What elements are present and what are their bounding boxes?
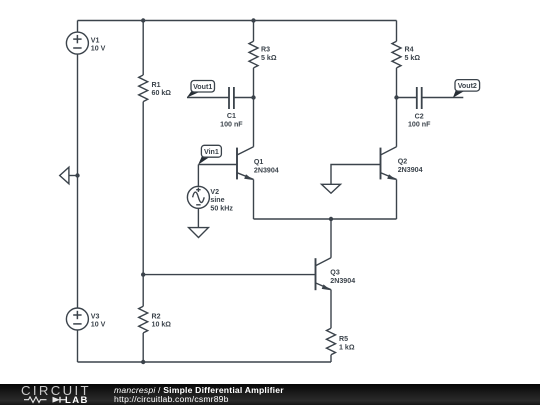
wire R5 bottom lead [330, 355, 332, 362]
svg-text:60 kΩ: 60 kΩ [152, 89, 172, 97]
wire Q2 base to ground [331, 165, 381, 185]
junction top rail R1 [141, 18, 145, 22]
ground at Q2 base [322, 184, 341, 193]
svg-text:100 nF: 100 nF [408, 121, 431, 129]
svg-text:R5: R5 [339, 335, 348, 343]
wire R4 bottom lead [396, 68, 398, 98]
svg-text:5 kΩ: 5 kΩ [405, 54, 421, 62]
svg-text:R2: R2 [152, 312, 161, 320]
wire R2 top lead [142, 275, 144, 307]
footer bar [0, 384, 540, 405]
wire Q2 collector lead [396, 98, 398, 147]
wire V1 top lead [77, 21, 79, 33]
footer caption [114, 386, 534, 406]
wire Q3 base [143, 274, 315, 276]
resistor R4 [392, 41, 420, 68]
wire V2 top lead [197, 165, 199, 187]
wire left rail V1 to V3 [77, 54, 79, 308]
junction C1 right [251, 95, 255, 99]
svg-text:Vout2: Vout2 [458, 82, 477, 90]
svg-text:R3: R3 [261, 46, 270, 54]
wire Q1 collector lead [253, 98, 255, 147]
resistor R2 [139, 306, 172, 333]
voltage source V3 [66, 308, 105, 330]
svg-text:1 kΩ: 1 kΩ [339, 343, 355, 351]
svg-text:2N3904: 2N3904 [330, 277, 355, 285]
capacitor C1 [187, 87, 254, 128]
wire R4 top lead [396, 21, 398, 42]
resistor R5 [327, 328, 355, 355]
junction Q3 base R1 R2 [141, 272, 145, 276]
svg-text:2N3904: 2N3904 [398, 166, 423, 174]
svg-text:Vin1: Vin1 [204, 148, 219, 156]
svg-text:50 kHz: 50 kHz [210, 204, 233, 212]
wire V3 bottom lead [77, 330, 79, 362]
svg-text:10 kΩ: 10 kΩ [152, 321, 172, 329]
wire R3 bottom lead [253, 68, 255, 98]
capacitor C2 [397, 87, 464, 129]
svg-text:C1: C1 [227, 112, 236, 120]
wire emitter bus [254, 218, 397, 220]
svg-text:V2: V2 [210, 188, 219, 196]
svg-text:V1: V1 [91, 36, 100, 44]
resistor R3 [249, 41, 277, 68]
junction emitter bus Q3 [329, 217, 333, 221]
wire Q3 collector lead [330, 219, 332, 258]
wire R1 top lead [142, 21, 144, 76]
svg-text:100 nF: 100 nF [220, 120, 243, 128]
junction C2 left [394, 95, 398, 99]
transistor Q1 [237, 147, 279, 180]
svg-text:5 kΩ: 5 kΩ [261, 54, 277, 62]
svg-text:Q3: Q3 [330, 268, 340, 276]
voltage source V1 [66, 32, 105, 54]
voltage source V2 [187, 186, 233, 212]
svg-text:Vout1: Vout1 [193, 83, 212, 91]
svg-text:Q1: Q1 [254, 158, 264, 166]
svg-text:10 V: 10 V [91, 45, 106, 53]
ground under V2 [189, 228, 209, 238]
svg-text:Q2: Q2 [398, 157, 408, 165]
svg-text:2N3904: 2N3904 [254, 167, 279, 175]
junction bottom rail R2 [141, 360, 145, 364]
resistor R1 [139, 75, 172, 102]
svg-text:C2: C2 [415, 112, 424, 120]
wire Q3 emitter lead [330, 290, 332, 329]
junction top rail R3 [251, 18, 255, 22]
wire R3 top lead [253, 21, 255, 42]
svg-text:V3: V3 [91, 312, 100, 320]
net flag Vout1 [187, 81, 215, 98]
svg-text:R1: R1 [152, 81, 161, 89]
wire Q1 base [198, 164, 237, 166]
wire bottom rail [78, 361, 332, 363]
transistor Q3 [316, 258, 356, 290]
wire R2 bottom lead [142, 333, 144, 362]
net flag arrow on left rail [60, 167, 78, 184]
wire V2 bottom lead [197, 208, 199, 227]
svg-text:10 V: 10 V [91, 321, 106, 329]
svg-text:LAB: LAB [65, 395, 89, 405]
transistor Q2 [381, 147, 423, 180]
CircuitLab logo [0, 384, 100, 405]
wire Q2 emitter lead [396, 179, 398, 219]
wire top rail [78, 20, 397, 22]
wire R1 bottom lead [142, 102, 144, 275]
net flag Vin1 [198, 145, 221, 164]
wire Q1 emitter lead [253, 179, 255, 219]
svg-text:R4: R4 [405, 46, 414, 54]
junction on left rail [75, 173, 79, 177]
svg-text:sine: sine [210, 196, 224, 204]
net flag Vout2 [453, 80, 480, 98]
